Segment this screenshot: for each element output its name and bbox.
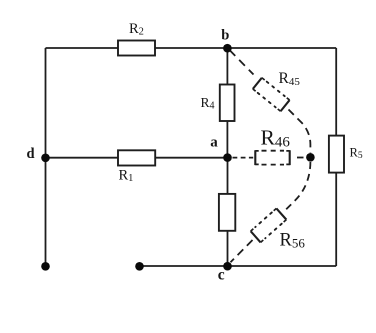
svg-text:R5: R5	[350, 146, 363, 162]
node a	[210, 135, 232, 162]
svg-text:d: d	[27, 146, 35, 162]
resistor R5	[329, 136, 363, 173]
resistor R45 (dashed, b to star point)	[230, 50, 311, 153]
svg-text:c: c	[218, 267, 225, 284]
svg-text:R4: R4	[201, 95, 215, 112]
resistor R56 (dashed, star point to c)	[231, 162, 311, 262]
resistor R46 (dashed, a to star point)	[233, 126, 304, 166]
node b	[221, 28, 231, 53]
terminal node on bottom wire	[135, 262, 144, 271]
svg-text:b: b	[221, 28, 229, 44]
svg-text:R46: R46	[261, 126, 291, 151]
wire vertical a-c	[227, 158, 229, 267]
node d	[27, 146, 50, 162]
svg-text:R45: R45	[279, 70, 301, 88]
svg-text:R1: R1	[119, 168, 134, 185]
wire vertical b-a	[226, 48, 228, 158]
wire right vertical rail	[335, 48, 337, 266]
resistor R4	[201, 85, 235, 122]
resistor R1	[118, 150, 155, 184]
terminal node below d	[41, 262, 50, 271]
resistor R6 (unlabeled, between a and c)	[219, 194, 235, 231]
svg-text:R2: R2	[129, 21, 144, 38]
svg-text:R56: R56	[280, 231, 306, 251]
resistor R2	[118, 21, 155, 56]
wire bottom horizontal c rail	[140, 265, 337, 267]
wire middle horizontal d-a	[46, 157, 228, 159]
node star point (junction of R45,R46,R56)	[306, 153, 315, 162]
node c	[218, 262, 232, 284]
svg-text:a: a	[210, 135, 218, 151]
wire left vertical rail	[45, 48, 47, 267]
wire top horizontal b rail	[46, 47, 337, 49]
